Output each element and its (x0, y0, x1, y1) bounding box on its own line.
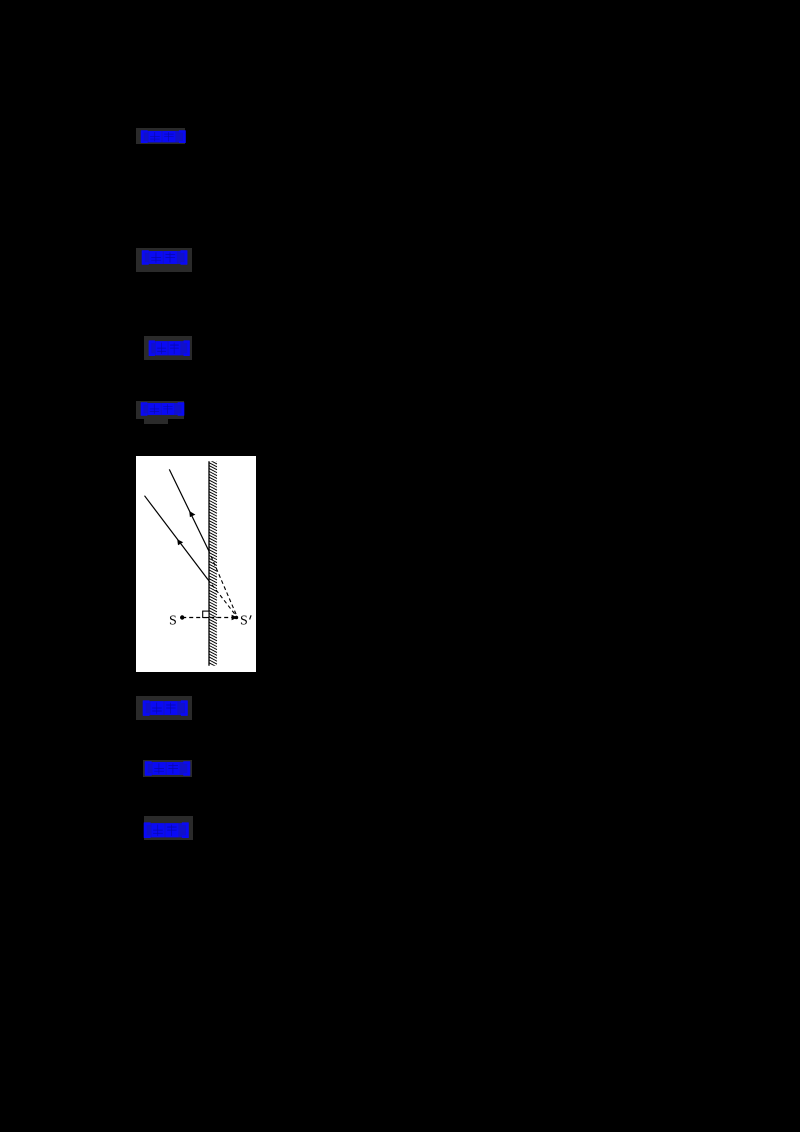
arrowhead ray 1 (189, 511, 195, 517)
arrowhead ray 2 (177, 539, 183, 545)
label L5 (142, 700, 189, 716)
label L2 (141, 250, 188, 265)
arrowhead at S' (232, 615, 238, 621)
label L1 (140, 130, 187, 143)
label L3 (148, 340, 191, 357)
highlight box L5 (136, 696, 192, 720)
highlight box L4 (136, 401, 184, 419)
dashed extension lower to S' (208, 580, 238, 618)
highlight box L2 (136, 248, 192, 272)
prime tick (250, 615, 252, 619)
svg-text:S: S (169, 613, 177, 628)
incident ray 1 (169, 469, 208, 550)
highlight box L4b (144, 419, 168, 424)
mirror surface line (208, 461, 210, 666)
label L4 (140, 402, 185, 416)
dashed extension upper to S' (208, 550, 237, 618)
svg-text:S: S (240, 613, 248, 628)
horizontal dashed line S to S' (182, 617, 232, 619)
label L7 (143, 822, 190, 839)
highlight box L3 (144, 336, 192, 360)
highlight box L1 (136, 128, 185, 144)
highlight box L7 (144, 816, 193, 840)
right-angle square marker (203, 611, 209, 617)
figure: plane mirror ray diagram (136, 456, 256, 672)
label L6 (144, 761, 191, 776)
highlight box L6 (143, 760, 192, 777)
incident ray 2 (145, 496, 208, 580)
dot at S' (235, 616, 239, 620)
dot at S (180, 615, 184, 619)
